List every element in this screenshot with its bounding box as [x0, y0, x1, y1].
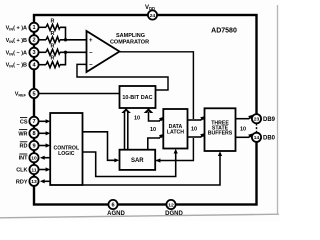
svg-text:RD: RD [20, 144, 28, 150]
chip outline AD7580 [34, 15, 257, 205]
bus: DATA LATCH to THREE STATE BUFFERS (10) [188, 119, 202, 121]
svg-text:INT: INT [19, 156, 29, 162]
svg-text:BUFFERS: BUFFERS [208, 130, 233, 136]
svg-text:8: 8 [32, 131, 35, 137]
wire: pin1 to R1 [39, 26, 46, 28]
svg-text:6: 6 [111, 202, 114, 208]
svg-text:R: R [51, 43, 55, 49]
block: 10-BIT DAC [120, 86, 156, 108]
svg-text:COMPARATOR: COMPARATOR [110, 40, 149, 46]
pin 4 [29, 60, 38, 69]
block: THREE STATE BUFFERS [205, 108, 236, 151]
svg-text:LOGIC: LOGIC [58, 151, 75, 157]
pin 14 [252, 133, 261, 142]
wire: INT output from control logic [42, 157, 50, 159]
svg-text:3: 3 [32, 50, 35, 56]
svg-text:−: − [89, 50, 93, 56]
wire: CS pin to control logic [39, 120, 48, 122]
wire: comparator output to SAR [119, 52, 194, 119]
wire: control logic to THREE STATE BUFFERS enable [83, 153, 221, 185]
svg-text:−: − [89, 62, 93, 68]
wire: control logic to DATA LATCH strobe [83, 151, 176, 177]
pin 12 [166, 200, 175, 209]
pin 13 [29, 177, 38, 186]
svg-text:SAMPLING: SAMPLING [116, 33, 145, 39]
svg-text:VIN( + )B: VIN( + )B [6, 38, 27, 44]
svg-text:SAR: SAR [131, 158, 144, 164]
svg-text:10: 10 [240, 126, 246, 132]
svg-text:14: 14 [254, 135, 260, 141]
svg-text:9: 9 [32, 143, 35, 149]
svg-text:23: 23 [254, 117, 260, 123]
wire: RDY output from control logic [42, 180, 50, 182]
wire: CLK pin to control logic [39, 169, 48, 171]
pin 11 [29, 165, 38, 174]
pin 3 [29, 48, 38, 57]
bus: SAR to DATA LATCH (10) [148, 138, 160, 150]
pin 6 [108, 200, 117, 209]
svg-text:R: R [51, 18, 55, 24]
svg-text:12: 12 [168, 202, 174, 208]
resistor R (pin 4) [46, 62, 60, 68]
svg-text:10: 10 [31, 156, 37, 162]
wire: VREF pin5 to DAC [39, 93, 120, 95]
bus: DATA LATCH to DAC [149, 112, 160, 122]
resistor R (pin 3) [46, 49, 60, 55]
svg-text:R: R [51, 56, 55, 62]
block: CONTROL LOGIC [50, 113, 82, 185]
wire: pin3 to R3 [39, 51, 46, 53]
svg-text:10: 10 [191, 126, 197, 132]
svg-text:LATCH: LATCH [167, 130, 184, 136]
dashed border segment between DB9 and DB0 pins [254, 124, 259, 132]
pin 23 [252, 114, 261, 123]
svg-text:WR: WR [18, 131, 27, 137]
pin 10 [29, 153, 38, 162]
svg-text:AD7580: AD7580 [211, 27, 237, 34]
svg-text:VIN( + )A: VIN( + )A [6, 25, 27, 31]
svg-text:RDY: RDY [16, 179, 28, 185]
svg-text:CLK: CLK [16, 168, 27, 174]
svg-text:VDD: VDD [145, 5, 155, 11]
scan edge artifacts [0, 214, 279, 218]
svg-text:DB0: DB0 [263, 136, 276, 142]
svg-text:DB9: DB9 [263, 117, 276, 123]
resistor R (pin 2) [46, 37, 60, 43]
bus: SAR to DAC (10) [124, 112, 126, 150]
block: SAR [120, 150, 156, 170]
op-amp U1 sampling comparator [87, 31, 120, 72]
arrow into SAR right edge [155, 158, 160, 162]
svg-text:2: 2 [32, 38, 35, 44]
svg-text:13: 13 [31, 179, 37, 185]
wire: RD pin to control logic [39, 145, 48, 147]
svg-text:10-BIT DAC: 10-BIT DAC [122, 95, 152, 101]
wire: WR pin to control logic [39, 132, 48, 134]
svg-text:+: + [89, 38, 93, 44]
resistor R (pin 1) [46, 24, 60, 30]
svg-text:VIN( − )A: VIN( − )A [6, 50, 27, 56]
wire: comparator + input from R1/R2 junction [60, 27, 66, 40]
pin 2 [29, 35, 38, 44]
node: junction R3/R4 [64, 51, 67, 54]
svg-text:1: 1 [32, 25, 35, 31]
pin 1 [29, 23, 38, 32]
svg-text:R: R [51, 31, 55, 37]
node: junction R1/R2 [64, 38, 67, 41]
svg-text:11: 11 [31, 167, 36, 173]
svg-text:5: 5 [32, 91, 35, 97]
bus: THREE STATE BUFFERS to DB9/DB0 pins (10) [236, 118, 250, 120]
wire: pin2 to R2 [39, 39, 46, 41]
block: DATA LATCH [163, 109, 187, 149]
svg-text:CS: CS [20, 119, 28, 125]
pin 5 [29, 89, 38, 98]
pin 8 [29, 129, 38, 138]
pin 9 [29, 141, 38, 150]
svg-text:10: 10 [134, 115, 140, 121]
wire: comparator - input from R3/R4 junction [60, 52, 66, 64]
svg-text:VIN( − )B: VIN( − )B [6, 63, 27, 69]
wire: control logic to SAR [83, 132, 117, 161]
wire: DAC feedback to comparator third input [77, 64, 168, 90]
wire: pin4 to R4 [39, 64, 46, 66]
pin 7 [29, 117, 38, 126]
svg-text:24: 24 [150, 13, 156, 19]
svg-text:10: 10 [150, 127, 156, 133]
pin 24 [148, 10, 157, 19]
svg-text:7: 7 [32, 119, 35, 125]
